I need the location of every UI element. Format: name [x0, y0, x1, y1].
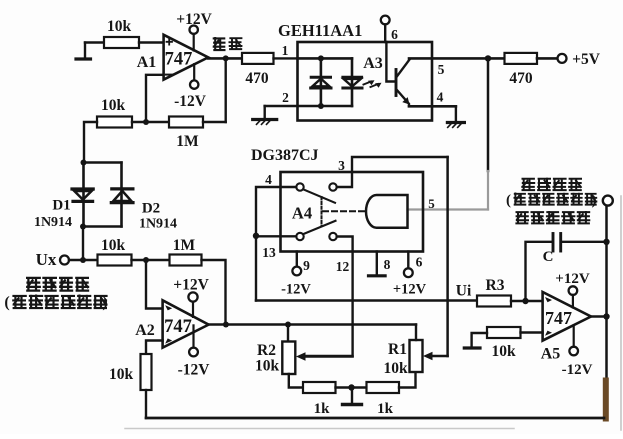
svg-text:3: 3 [338, 158, 345, 173]
svg-text:R1: R1 [388, 341, 407, 358]
wire 10k to bottom rail [145, 390, 147, 418]
resistor 1k right [367, 382, 400, 417]
wire 10k to 1M [132, 121, 169, 123]
stray gray line bottom [125, 428, 514, 430]
wire A1 -input [146, 75, 164, 122]
svg-text:+12V: +12V [173, 277, 209, 294]
switch 1 (top) [296, 183, 336, 203]
svg-text:+12V: +12V [176, 11, 212, 28]
svg-text:A5: A5 [541, 346, 561, 363]
svg-text:747: 747 [165, 50, 193, 70]
svg-text:): ) [592, 193, 597, 209]
LED 2 (opto) [343, 58, 362, 106]
capacitor C (integrator) [526, 234, 607, 302]
svg-text:R2: R2 [257, 342, 276, 359]
svg-text:10k: 10k [101, 97, 126, 114]
ground (A1 + input bias) [84, 43, 86, 58]
light arrows [364, 80, 382, 88]
svg-text:1M: 1M [176, 133, 199, 150]
resistor 470 (opto input) [242, 53, 274, 87]
node A2 inverting input [143, 257, 149, 263]
pin 12 wire [303, 237, 353, 357]
wire opto pin2 rail [265, 105, 352, 108]
wire A1 output [208, 57, 242, 60]
stray gray line right [620, 196, 622, 430]
resistor 10k (A2 + input) [109, 354, 152, 390]
svg-text:10k: 10k [109, 366, 134, 383]
-12V supply A2 [178, 325, 211, 378]
resistor 1M (A2 feedback) [170, 237, 202, 266]
node LED1 top [318, 55, 324, 61]
pin 6 terminal +12V [393, 252, 427, 298]
+12V supply A1 [176, 11, 212, 51]
diode D2 1N914 [111, 163, 177, 232]
ground (pot divider) [351, 388, 353, 405]
svg-text:1k: 1k [377, 401, 394, 417]
svg-text:(: ( [506, 193, 511, 209]
svg-text:13: 13 [262, 245, 276, 260]
wire A2 output [209, 323, 416, 326]
node A1 inverting [143, 119, 149, 125]
wire diode node to 10k [84, 122, 97, 163]
label jian-ling (zero detect) [213, 37, 243, 50]
svg-text:1: 1 [282, 43, 289, 58]
wire Ui horizontal [256, 299, 477, 302]
wire opto pin1 rail [298, 57, 353, 60]
resistor 10k (A5 + input) [464, 327, 542, 360]
switch driver (D shape) [366, 195, 407, 228]
svg-text:DG387CJ: DG387CJ [251, 147, 319, 164]
svg-text:1k: 1k [314, 401, 331, 417]
svg-text:+12V: +12V [393, 282, 427, 298]
svg-text:6: 6 [416, 255, 423, 270]
pin 3 wire [337, 157, 448, 187]
node center ground [348, 384, 354, 390]
wire R3 to A5 -in [511, 300, 543, 302]
node zero-detect (A1 out) [223, 55, 229, 61]
svg-text:+5V: +5V [572, 51, 601, 68]
svg-text:10k: 10k [491, 343, 516, 360]
+12V supply A5 [555, 271, 590, 308]
pin 6 terminal (opto base) [381, 16, 398, 42]
svg-text:A2: A2 [135, 322, 155, 339]
resistor 1M (A1 feedback) [169, 117, 203, 151]
wire 1M to A1 output node [203, 121, 226, 123]
op-amp A5 747 [541, 292, 591, 363]
svg-text:1N914: 1N914 [139, 217, 177, 232]
potentiometer R2 10k [255, 342, 353, 375]
node A5 output [603, 313, 609, 319]
phototransistor (opto) [386, 42, 409, 106]
svg-text:4: 4 [265, 172, 272, 187]
diode D1 1N914 [34, 163, 93, 231]
node capacitor / output [603, 239, 609, 245]
resistor R3 [477, 277, 511, 307]
wire R2 top [287, 325, 289, 342]
driver dashed line [323, 210, 366, 212]
pin 13 wire [256, 235, 296, 237]
svg-text:+12V: +12V [555, 271, 590, 287]
wire A5 out down [605, 317, 608, 379]
svg-text:Ui: Ui [456, 283, 472, 300]
svg-text:-12V: -12V [178, 362, 211, 379]
wire 10k to A1 +in [139, 41, 164, 43]
svg-text:5: 5 [428, 196, 435, 211]
node Ux / diodes [80, 257, 86, 263]
label from servo system [4, 294, 107, 311]
-12V supply A1 [174, 64, 207, 110]
potentiometer R1 10k [383, 325, 447, 378]
wire R2 bottom to 1k [289, 374, 303, 388]
label to servo system [506, 193, 597, 209]
label ramp generator (xiepo fashengqi) [515, 211, 529, 224]
wire A2 +input [146, 341, 163, 355]
svg-text:2: 2 [282, 90, 289, 105]
wire output vertical [605, 206, 608, 317]
LED 1 (opto) [311, 58, 331, 106]
wire 10k to 1M node [132, 259, 170, 261]
ground (opto pin2) [264, 106, 266, 120]
svg-text:1N914: 1N914 [34, 215, 72, 230]
node diode top [81, 160, 87, 166]
pin 8 ground [369, 252, 391, 276]
svg-text:GEH11AA1: GEH11AA1 [278, 21, 362, 40]
svg-text:A1: A1 [137, 54, 157, 71]
terminal ramp output [603, 196, 613, 206]
wire 470 to opto pin1 [274, 57, 298, 59]
terminal +5V [537, 51, 601, 68]
ground (opto emitter) [455, 106, 457, 122]
svg-text:A4: A4 [292, 204, 312, 223]
svg-text:Ux: Ux [36, 250, 57, 269]
svg-text:10k: 10k [107, 18, 132, 35]
svg-text:-12V: -12V [281, 282, 311, 298]
resistor 10k (A2 input) [98, 237, 132, 266]
node LED1 bottom [318, 103, 324, 109]
svg-text:D1: D1 [52, 198, 70, 214]
wire 1k to R1 bottom [399, 372, 416, 388]
svg-text:D2: D2 [142, 201, 160, 217]
node A2 out / R2 top [285, 322, 291, 328]
node diode bottom [80, 224, 86, 230]
wire 1k to center node [336, 386, 367, 388]
svg-text:-12V: -12V [174, 93, 207, 110]
analog switch DG387CJ box [251, 147, 423, 252]
svg-text:470: 470 [245, 70, 269, 87]
wire opto collector pin5 [409, 57, 488, 60]
label control input (kongzhi shuru) [26, 277, 41, 291]
wire bottom rail (A5 out to A2 +in) [146, 417, 604, 420]
resistor 1k left [303, 382, 336, 417]
svg-text:5: 5 [438, 62, 445, 77]
svg-text:8: 8 [384, 257, 391, 272]
wire detect to switch driver [487, 58, 490, 171]
svg-text:10k: 10k [255, 358, 280, 375]
wire opto emitter pin4 [409, 105, 456, 108]
svg-text:-12V: -12V [562, 362, 593, 378]
svg-text:C: C [543, 249, 554, 265]
svg-text:747: 747 [545, 308, 572, 328]
-12V supply A5 [562, 325, 593, 378]
wire pin3 to R1 wiper (ramp ref) [446, 157, 449, 356]
pin 9 terminal -12V [281, 252, 311, 298]
svg-text:747: 747 [164, 317, 192, 337]
wire A1 +input to ground resistor [85, 41, 104, 43]
svg-text:4: 4 [437, 90, 444, 105]
svg-text:): ) [102, 294, 107, 311]
wire A2 -input [146, 260, 163, 309]
wire Ux to 10k [69, 259, 98, 261]
pin 4 wire [256, 187, 296, 301]
wire diode top rail [84, 161, 122, 163]
node pin4/pin13 [253, 233, 259, 239]
resistor 470 (+5V pullup) [488, 53, 537, 87]
wire A1 feedback vertical [224, 58, 226, 122]
svg-text:(: ( [4, 294, 9, 311]
svg-text:A3: A3 [363, 55, 383, 72]
svg-text:10k: 10k [101, 237, 126, 254]
op-amp A1 747 [137, 35, 208, 80]
resistor 10k (A1 + input) [104, 18, 139, 48]
optocoupler GEH11AA1 box [278, 21, 432, 121]
op-amp A2 747 [135, 300, 208, 347]
svg-text:470: 470 [509, 70, 533, 87]
svg-text:1M: 1M [173, 237, 196, 254]
svg-text:9: 9 [303, 258, 310, 273]
wire A5 output [591, 315, 607, 318]
svg-text:12: 12 [336, 259, 350, 274]
node A2 out / 1M feedback [223, 322, 229, 328]
wire 1M to A2 output [202, 260, 226, 325]
svg-text:6: 6 [391, 27, 398, 42]
resistor 10k (A1 - input) [97, 97, 132, 128]
label ramp output (xiepo shuchu) [521, 178, 535, 190]
node A5 inverting [522, 298, 528, 304]
svg-text:10k: 10k [383, 360, 408, 377]
terminal Ux input [36, 250, 69, 269]
gang link dotted [321, 197, 323, 226]
wire switch control (gray) [408, 208, 489, 210]
node detect output [485, 55, 491, 61]
wire diode bottom rail [83, 227, 122, 261]
switch 2 (bottom) [296, 221, 336, 240]
+12V supply A2 [173, 277, 209, 317]
wire (brown mark) to bottom rail [603, 378, 609, 422]
svg-text:R3: R3 [486, 277, 505, 294]
